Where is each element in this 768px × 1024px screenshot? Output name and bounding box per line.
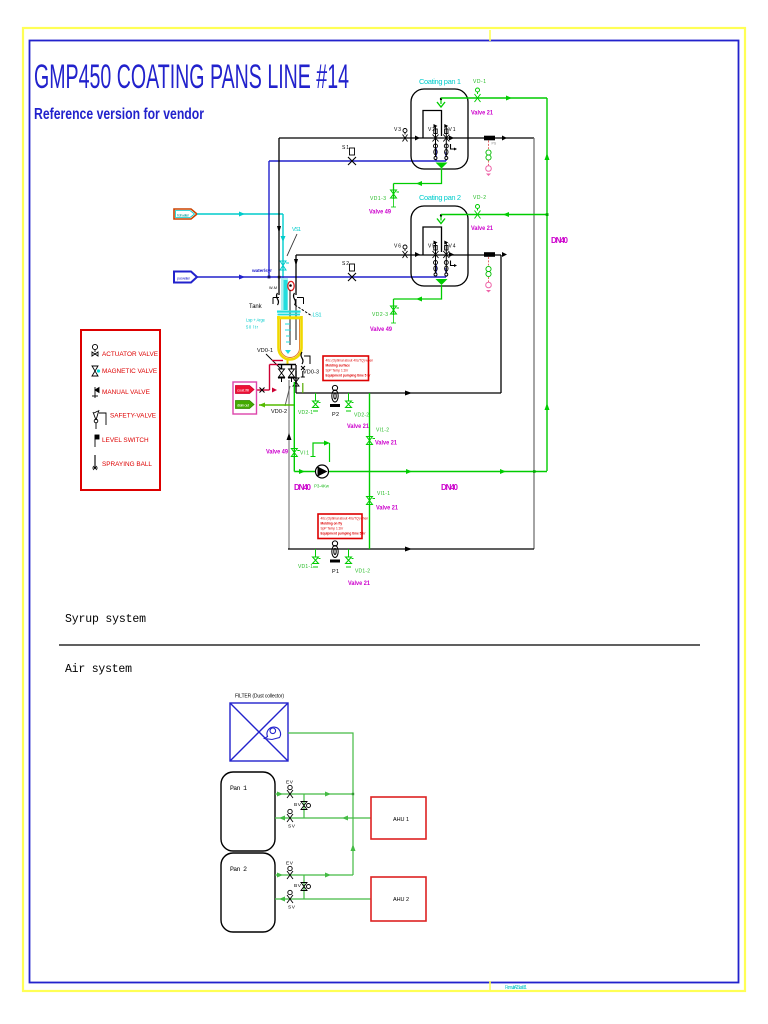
- legend level switch symbol: [95, 435, 99, 447]
- valve V3: [403, 129, 408, 142]
- green line VD-2: [441, 214, 547, 216]
- vent valve VD1-3: [391, 190, 400, 207]
- red feed line: [256, 361, 283, 391]
- junction dot blue vertical: [268, 276, 271, 279]
- legend safety valve symbol: [93, 410, 106, 429]
- svg-text:Valve 21: Valve 21: [347, 423, 369, 430]
- arrow after flange pan2: [502, 252, 507, 257]
- valve V2: [433, 124, 439, 160]
- tank cyan dip column: [281, 278, 288, 310]
- junction dot green pump corner: [533, 470, 536, 473]
- svg-text:P2: P2: [332, 412, 339, 418]
- svg-text:Valve 49: Valve 49: [369, 209, 391, 216]
- green drain line: [259, 404, 294, 406]
- hot water tag: [174, 209, 197, 219]
- svg-text:pur.water: pur.water: [177, 276, 191, 281]
- supply arrows pan1: [279, 816, 285, 821]
- pan2 inner loop: [423, 227, 442, 255]
- valve VD2-1: [313, 393, 321, 411]
- pan1 exhaust line: [275, 793, 353, 795]
- cyan arrow down: [281, 236, 286, 242]
- tank bottom outlet: [287, 360, 289, 364]
- green interpump vertical: [369, 393, 371, 549]
- svg-text:Equipment pumping time 5 hr: Equipment pumping time 5 hr: [326, 374, 372, 378]
- pan1 supply line: [275, 817, 371, 819]
- svg-text:Coating pan 2: Coating pan 2: [419, 193, 461, 202]
- arrow after flange: [502, 136, 507, 141]
- valve V4: [443, 241, 449, 277]
- VD0-1 valve: [278, 369, 285, 382]
- AHU1 box: [371, 797, 426, 839]
- svg-text:hot water: hot water: [177, 213, 190, 218]
- tank green drops: [302, 383, 304, 393]
- pan1 feed junction arrow: [415, 136, 420, 141]
- pan2 green inlet arrow: [440, 214, 442, 221]
- svg-text:V1: V1: [449, 127, 456, 133]
- arrow down into tank left pipe: [277, 226, 281, 233]
- svg-text:SV: SV: [288, 905, 296, 911]
- top center tick: [489, 30, 491, 41]
- green line VD-1: [441, 98, 547, 471]
- black pipe to pan2: [296, 255, 501, 393]
- pump P3: [316, 465, 329, 478]
- VD0-2 pointer: [285, 386, 290, 406]
- AHU2 box: [371, 877, 426, 921]
- svg-text:DN40: DN40: [294, 483, 312, 492]
- SV valve pan1: [287, 809, 293, 822]
- nozzle drain arrow: [416, 181, 422, 186]
- svg-text:VI1: VI1: [300, 451, 309, 457]
- svg-text:AHU 1: AHU 1: [393, 817, 409, 823]
- coating pan 2 outline: [411, 206, 468, 286]
- svg-text:VD1-1: VD1-1: [298, 564, 313, 570]
- Pan 2 box: [221, 853, 275, 932]
- pan1 inner loop: [423, 111, 442, 139]
- svg-text:Lsp + Arge: Lsp + Arge: [246, 318, 266, 323]
- tank top pipe fittings: [273, 293, 304, 305]
- svg-text:40c (Optimal about 40c/7Q) whe: 40c (Optimal about 40c/7Q) when: [321, 517, 369, 521]
- green arrow left on VD-2 line: [503, 212, 509, 217]
- legend magnetic valve symbol: [92, 366, 100, 376]
- svg-text:50 ltr: 50 ltr: [246, 325, 259, 330]
- divider line: [59, 644, 700, 646]
- valve VI1-2: [367, 437, 376, 445]
- coating pan 1 outline: [411, 89, 468, 169]
- valve VD-2: [475, 205, 481, 219]
- svg-text:Equipment pumping time 5 hr: Equipment pumping time 5 hr: [321, 532, 367, 536]
- S2 valve: [348, 264, 356, 281]
- svg-text:ACTUATOR VALVE: ACTUATOR VALVE: [102, 351, 158, 358]
- svg-text:MAGNETIC VALVE: MAGNETIC VALVE: [102, 368, 157, 375]
- bright green drop to pump line: [293, 382, 295, 472]
- pan1 return vertical: [533, 138, 535, 549]
- svg-text:Coating pan 1: Coating pan 1: [419, 77, 461, 86]
- junction dot black pipe crossing blue: [278, 276, 281, 279]
- Pan 1 box: [221, 772, 275, 851]
- svg-text:Valve 21: Valve 21: [471, 225, 493, 232]
- bottom center tick: [489, 981, 491, 991]
- note box 2: [318, 514, 368, 539]
- svg-text:MANUAL VALVE: MANUAL VALVE: [102, 389, 150, 396]
- S1 valve: [348, 148, 356, 165]
- svg-text:DN40: DN40: [441, 483, 459, 492]
- svg-text:V4: V4: [449, 244, 456, 250]
- svg-text:DN40: DN40: [551, 236, 569, 245]
- pan1 sample branch: [486, 141, 492, 177]
- pump bypass loop: [313, 443, 330, 462]
- pump P1: [331, 541, 340, 562]
- svg-text:S1: S1: [342, 145, 349, 151]
- feed X valve: [260, 388, 265, 393]
- svg-text:P3-4Kw: P3-4Kw: [314, 484, 330, 489]
- svg-text:GMP450 COATING PANS LINE #14: GMP450 COATING PANS LINE #14: [34, 58, 349, 96]
- svg-text:Syrup system: Syrup system: [65, 613, 146, 626]
- BV valve pan2: [301, 883, 311, 891]
- svg-text:Valve 21: Valve 21: [471, 110, 493, 117]
- svg-text:Molding on fly: Molding on fly: [321, 522, 343, 526]
- green arrow up x547: [545, 153, 550, 160]
- svg-text:VD0-2: VD0-2: [271, 409, 287, 415]
- svg-text:Valve 21: Valve 21: [348, 580, 370, 587]
- valve VI1: [291, 449, 300, 457]
- pan2 sample branch: [486, 257, 492, 293]
- svg-text:BV: BV: [294, 883, 302, 889]
- VD0-1 pointer: [266, 354, 281, 369]
- svg-text:drain out: drain out: [237, 403, 250, 408]
- svg-text:BV: BV: [294, 802, 302, 808]
- P1 suction line: [288, 548, 534, 550]
- blue arrow: [239, 275, 245, 280]
- svg-text:VD2-3: VD2-3: [372, 312, 388, 318]
- svg-text:SAFETY-VALVE: SAFETY-VALVE: [110, 413, 156, 420]
- legend manual valve symbol: [92, 387, 99, 398]
- feed tag box: [233, 382, 257, 414]
- arrow up on left drop: [287, 433, 292, 440]
- pan2 supply line: [275, 898, 371, 900]
- tank body: [279, 316, 302, 360]
- exhaust arrows pan1: [277, 792, 283, 797]
- svg-text:Molding surface: Molding surface: [326, 364, 351, 368]
- arrow on P2 line: [405, 391, 412, 396]
- svg-text:Pan 1: Pan 1: [230, 785, 247, 792]
- svg-text:coat.fill: coat.fill: [237, 388, 249, 393]
- pan1 green inlet arrow: [440, 98, 442, 105]
- syrup water tag: [174, 272, 197, 283]
- tank dip tubes: [289, 290, 291, 345]
- svg-text:FILTER (Dust collector): FILTER (Dust collector): [235, 694, 284, 700]
- svg-text:P1: P1: [332, 569, 339, 575]
- svg-text:VD2-2: VD2-2: [354, 413, 369, 419]
- black pipe to pan1: [279, 138, 534, 295]
- svg-text:W-M: W-M: [269, 286, 277, 290]
- arrow on P1 line: [405, 547, 412, 552]
- svg-text:EV: EV: [286, 780, 294, 786]
- EV valve pan2: [287, 866, 293, 879]
- svg-text:EV: EV: [286, 861, 294, 867]
- green arrows on discharge: [299, 469, 305, 474]
- valve V5: [433, 241, 439, 277]
- tank level marks: [285, 324, 291, 342]
- svg-text:VD-1: VD-1: [473, 79, 486, 85]
- valve VD1-2: [346, 549, 354, 567]
- blue supply line pan2 level: [197, 148, 446, 277]
- svg-text:V2: V2: [428, 127, 435, 133]
- green tag: [236, 401, 255, 409]
- svg-text:Tank: Tank: [249, 303, 262, 310]
- valve V1: [443, 124, 449, 160]
- drain arrow left: [259, 403, 265, 408]
- black flange on pan2 return: [484, 252, 495, 257]
- gray drop VD0-2: [288, 380, 290, 549]
- svg-text:VD1-2: VD1-2: [355, 569, 370, 575]
- BV valve pan1: [301, 802, 311, 810]
- pump discharge line green: [294, 471, 547, 473]
- pan2 nozzle drain: [394, 285, 442, 323]
- magnetic valve VS1: [280, 261, 289, 270]
- svg-text:PS: PS: [492, 142, 497, 146]
- svg-text:VS1: VS1: [292, 227, 301, 233]
- pan2 feed junction arrows: [415, 252, 420, 257]
- svg-text:V6: V6: [394, 244, 401, 250]
- svg-text:SPRAYING BALL: SPRAYING BALL: [102, 461, 152, 468]
- outlet manifold: [278, 365, 296, 370]
- svg-text:VI1-2: VI1-2: [376, 428, 389, 434]
- bv branch pan2: [303, 875, 305, 899]
- junction air exhaust1: [352, 793, 354, 795]
- green arrow right on VD-1 line: [506, 96, 512, 101]
- svg-text:V3: V3: [394, 127, 401, 133]
- VD0-3 valve: [288, 369, 295, 382]
- arrow down pan2 pipe: [294, 259, 298, 266]
- tank right outlet fitting: [301, 352, 310, 377]
- valve V6: [403, 245, 408, 258]
- cyan arrow: [239, 212, 245, 217]
- air main line: [288, 733, 353, 875]
- filter box: [230, 703, 288, 761]
- svg-text:SpP Temp 1:1hr: SpP Temp 1:1hr: [321, 527, 345, 531]
- red arrows: [272, 388, 277, 393]
- LS1 pointer: [295, 305, 312, 316]
- svg-text:Formula A2 Scale 1:1: Formula A2 Scale 1:1: [505, 985, 527, 991]
- black flange on pan1 return: [484, 136, 495, 141]
- svg-text:V5: V5: [428, 244, 435, 250]
- svg-text:VD2-1: VD2-1: [298, 410, 313, 416]
- nozzle drain arrow pan2: [416, 297, 422, 302]
- VS1 pointer: [287, 234, 297, 256]
- svg-text:Valve 21: Valve 21: [376, 505, 398, 512]
- svg-text:Valve 49: Valve 49: [266, 449, 288, 456]
- svg-text:LEVEL SWITCH: LEVEL SWITCH: [102, 437, 149, 444]
- V1 drain elbow: [451, 144, 455, 149]
- fan symbol: [265, 727, 281, 739]
- pan2 spray nozzle: [436, 279, 448, 285]
- supply arrows pan2: [279, 897, 285, 902]
- svg-text:Valve 49: Valve 49: [370, 326, 392, 333]
- svg-text:40c (Optimal about 40c/7Q) whe: 40c (Optimal about 40c/7Q) when: [326, 359, 374, 363]
- pan1 nozzle drain: [394, 169, 442, 208]
- P2 suction line: [296, 365, 501, 393]
- valve VD-1: [475, 88, 481, 102]
- legend spraying ball symbol: [92, 455, 98, 470]
- svg-text:VI1-1: VI1-1: [377, 491, 390, 497]
- cyan hot water line: [197, 214, 283, 292]
- air main arrow up: [351, 844, 356, 851]
- valve VI1-1: [367, 497, 376, 505]
- svg-text:S2: S2: [342, 261, 349, 267]
- pump P2: [331, 385, 340, 406]
- svg-text:VD0-1: VD0-1: [257, 348, 273, 354]
- vent valve VD2-3: [391, 306, 400, 323]
- tank flange: [277, 311, 301, 313]
- SV valve pan2: [287, 890, 293, 903]
- svg-text:SV: SV: [288, 824, 296, 830]
- EV valve pan1: [287, 785, 293, 798]
- pan1 spray nozzle: [436, 163, 448, 169]
- svg-text:Reference version for vendor: Reference version for vendor: [34, 106, 204, 123]
- svg-text:VD-2: VD-2: [473, 195, 486, 201]
- legend box: [81, 330, 160, 490]
- red tag: [236, 386, 255, 394]
- exhaust arrows pan2: [277, 873, 283, 878]
- svg-text:AHU 2: AHU 2: [393, 897, 409, 903]
- svg-text:LS1: LS1: [313, 313, 322, 319]
- legend actuator valve symbol: [92, 344, 98, 356]
- note box 1: [323, 356, 373, 381]
- svg-text:VD0-3: VD0-3: [303, 370, 319, 376]
- pan2 exhaust line: [275, 874, 353, 876]
- svg-text:water/syr: water/syr: [251, 268, 272, 274]
- svg-text:VD1-3: VD1-3: [370, 196, 386, 202]
- W valve red circle: [288, 281, 294, 290]
- svg-text:Air system: Air system: [65, 663, 132, 676]
- svg-text:Valve 21: Valve 21: [375, 440, 397, 447]
- svg-text:SpP Temp 1:1hr: SpP Temp 1:1hr: [326, 369, 350, 373]
- right branch valve: [293, 371, 299, 386]
- valve VD1-1: [313, 549, 321, 567]
- valve VD2-2: [346, 393, 354, 411]
- bv branch pan1: [303, 794, 305, 818]
- junction dot green main to VD2 branch: [546, 213, 549, 216]
- V4 drain elbow: [451, 261, 455, 266]
- svg-text:Pan 2: Pan 2: [230, 866, 247, 873]
